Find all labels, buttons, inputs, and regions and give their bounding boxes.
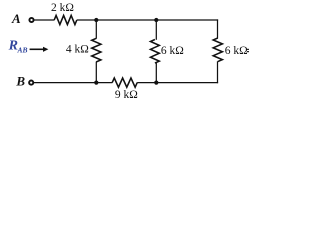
- wire R2 down to bottom node1: [95, 62, 97, 83]
- node B label: [15, 74, 25, 89]
- svg-text:4 kΩ: 4 kΩ: [66, 44, 89, 56]
- junction bottom node 1: [94, 81, 98, 85]
- value label 2 kOhm: [51, 2, 74, 14]
- wire R5 to bottom-right corner: [137, 82, 218, 84]
- wire R3 down to bottom node2: [155, 63, 157, 83]
- svg-text:6 kΩ: 6 kΩ: [225, 45, 248, 57]
- value label 9 kOhm: [115, 89, 138, 101]
- svg-text:9 kΩ: 9 kΩ: [115, 89, 138, 101]
- value label 4 kOhm: [66, 44, 89, 56]
- svg-text:A: A: [11, 11, 21, 26]
- wire node1 down to R2: [95, 20, 97, 39]
- wire terminal A to R1: [34, 19, 54, 21]
- value label 6 kOhm (middle): [161, 45, 184, 57]
- terminal A: [29, 18, 33, 22]
- svg-text:B: B: [15, 74, 25, 89]
- junction top node 1: [94, 18, 98, 22]
- resistor R3 6 kOhm (middle vertical): [151, 40, 160, 64]
- equals-sign fragment at right image edge: [247, 49, 249, 52]
- resistor R2 4 kOhm (left vertical): [92, 38, 101, 62]
- value label 6 kOhm (right): [225, 45, 248, 57]
- wire top bus R1 to top-right corner: [77, 19, 218, 21]
- svg-text:AB: AB: [17, 46, 28, 55]
- resistor R1 2 kOhm (top horizontal): [54, 15, 77, 24]
- terminal B: [29, 81, 33, 85]
- wire node2 down to R3: [155, 20, 157, 40]
- resistor R5 9 kOhm (bottom horizontal): [112, 78, 137, 87]
- label R_AB: [8, 39, 28, 55]
- junction bottom node 2: [154, 81, 158, 85]
- wire R4 down to bottom-right corner: [217, 61, 219, 83]
- junction top node 2: [154, 18, 158, 22]
- arrow R_AB pointing into circuit: [30, 47, 49, 52]
- node A label: [11, 11, 21, 26]
- wire top-right corner down to R4: [217, 19, 219, 38]
- svg-text:R: R: [8, 39, 18, 54]
- svg-text:6 kΩ: 6 kΩ: [161, 45, 184, 57]
- resistor R4 6 kOhm (right vertical): [213, 38, 222, 62]
- svg-text:2 kΩ: 2 kΩ: [51, 2, 74, 14]
- wire terminal B to bottom node1: [34, 82, 113, 84]
